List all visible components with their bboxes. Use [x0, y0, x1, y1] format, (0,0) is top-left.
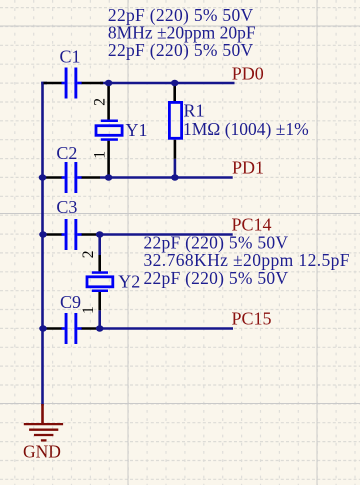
svg-text:PD1: PD1	[232, 158, 264, 178]
junction at PC14 / Y2 pin 2	[96, 231, 104, 237]
svg-text:2: 2	[92, 98, 109, 106]
svg-text:R1: R1	[184, 100, 205, 120]
svg-text:1MΩ (1004) ±1%: 1MΩ (1004) ±1%	[183, 119, 309, 139]
wire net PC14 vertical stub to Y2 pin 2	[98, 235, 101, 256]
svg-text:Y1: Y1	[126, 120, 148, 140]
wire net PC15 vertical stub to Y2 pin 1	[98, 310, 101, 328]
wire net PC15 horizontal	[100, 327, 233, 330]
wire GND rail (left vertical net)	[41, 82, 44, 406]
capacitor C3	[44, 219, 101, 250]
svg-text:2: 2	[80, 250, 97, 258]
capacitor C1	[44, 68, 104, 99]
junction at PC15 / Y2 pin 1	[96, 325, 104, 331]
ground power port GND	[24, 404, 63, 440]
wire net PC14 horizontal	[100, 233, 233, 236]
junction at PD1 / Y1 pin 1	[105, 174, 113, 180]
svg-text:GND: GND	[23, 441, 61, 461]
svg-text:PC14: PC14	[232, 215, 272, 235]
wire net PD0 top-left corner	[41, 82, 47, 85]
wire net PD0 horizontal	[100, 82, 235, 85]
junction at GND rail / PD1	[39, 174, 47, 180]
svg-text:PC15: PC15	[232, 309, 272, 329]
junction at PD0 / Y1 pin 2	[105, 80, 113, 86]
svg-text:C3: C3	[56, 197, 77, 217]
svg-text:22pF (220) 5% 50V: 22pF (220) 5% 50V	[108, 40, 254, 60]
junction at PD1 / R1 pin 2	[171, 174, 179, 180]
svg-text:Y2: Y2	[118, 272, 140, 292]
junction at PD0 / R1 pin 1	[171, 80, 179, 86]
wire net PD1 vertical stub to R1 pin 2	[174, 159, 177, 178]
junction at GND rail / PC15	[39, 325, 47, 331]
svg-text:1: 1	[80, 306, 97, 314]
capacitor C9	[44, 313, 101, 344]
svg-text:1: 1	[92, 151, 109, 159]
svg-text:PD0: PD0	[232, 63, 264, 83]
capacitor C2	[44, 162, 101, 193]
crystal Y1	[96, 84, 122, 176]
junction at GND rail / PC14	[39, 231, 47, 237]
resistor R1	[169, 84, 181, 159]
svg-text:22pF (220) 5% 50V: 22pF (220) 5% 50V	[144, 268, 289, 288]
svg-text:C9: C9	[60, 292, 81, 312]
crystal Y2	[87, 255, 113, 310]
svg-text:C1: C1	[60, 47, 81, 67]
svg-text:C2: C2	[56, 143, 77, 163]
wire net PD1 horizontal	[100, 176, 233, 179]
